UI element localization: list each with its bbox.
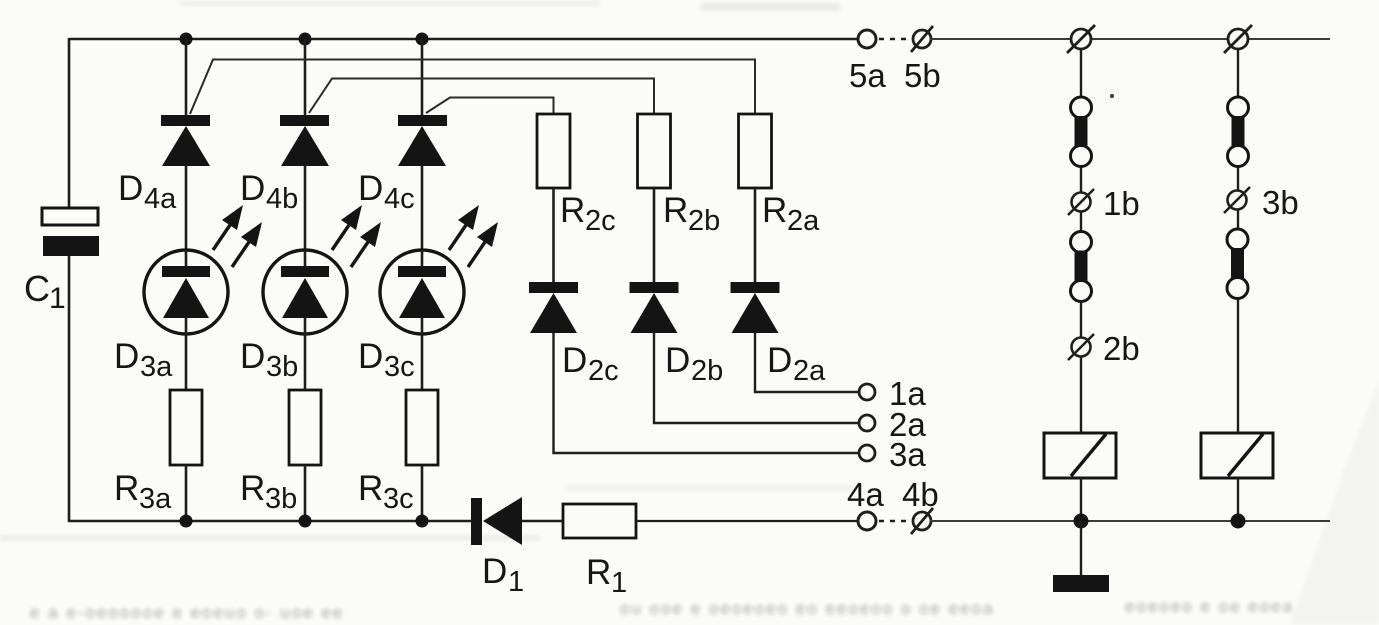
- terminal 5b (crossed): [911, 26, 933, 52]
- diode D4b: [280, 115, 329, 166]
- svg-text:D: D: [358, 337, 383, 376]
- wire: bottom bus right segment: [930, 520, 1330, 522]
- terminal 2b (crossed): [1068, 334, 1094, 360]
- resistor R2c: [537, 114, 570, 188]
- svg-text:R: R: [586, 553, 611, 592]
- LED arrows D3c: [449, 205, 498, 267]
- terminal 4b (crossed): [911, 508, 933, 534]
- wire: bottom bus R1-4a: [636, 520, 859, 522]
- ground: [1053, 575, 1109, 592]
- svg-text:4a: 4a: [847, 476, 884, 513]
- svg-text:3b: 3b: [265, 483, 297, 515]
- wire: tap D4a to R2a: [190, 60, 755, 115]
- svg-text:C: C: [24, 268, 50, 309]
- svg-text:2c: 2c: [585, 205, 616, 237]
- wire: dashed link 4a-4b: [879, 520, 911, 522]
- svg-text:3c: 3c: [383, 483, 414, 515]
- svg-text:4b: 4b: [266, 183, 298, 215]
- wire: tap D4b to R2b: [309, 79, 654, 115]
- svg-text:D: D: [358, 169, 383, 208]
- junction node bottom branch 2: [1231, 514, 1246, 529]
- svg-text:3b: 3b: [266, 351, 298, 383]
- terminal 1b (crossed): [1068, 189, 1094, 215]
- svg-text:5a: 5a: [849, 57, 886, 94]
- svg-text:D: D: [118, 169, 143, 208]
- junction node bottom branch 1: [1074, 514, 1089, 529]
- svg-text:3a: 3a: [139, 483, 172, 515]
- wire: right branch 1 (lamp 1b/2b): [1080, 39, 1082, 433]
- svg-text:R: R: [762, 191, 787, 230]
- svg-text:2a: 2a: [787, 205, 820, 237]
- terminal 3a: [859, 445, 875, 461]
- wire: branch c top: [421, 39, 424, 115]
- wire: top bus left segment: [69, 38, 859, 40]
- terminal 5a: [858, 30, 876, 48]
- svg-text:3c: 3c: [384, 351, 415, 383]
- svg-text:1: 1: [508, 566, 524, 598]
- svg-text:D: D: [240, 337, 265, 376]
- wire: relay K1 to bottom bus: [1080, 478, 1082, 521]
- terminal 2a: [859, 415, 875, 431]
- wire: branch b mid: [304, 166, 307, 251]
- junction node top branch b: [299, 33, 312, 46]
- svg-text:1: 1: [49, 282, 66, 315]
- svg-text:5b: 5b: [904, 57, 941, 94]
- resistor R3b: [289, 390, 321, 465]
- svg-text:1: 1: [611, 567, 627, 599]
- svg-text:R: R: [240, 469, 265, 508]
- connector element lower branch 2: [1227, 229, 1248, 299]
- svg-text:R: R: [560, 191, 585, 230]
- diode D2b: [630, 282, 679, 333]
- junction node bottom branch a: [180, 515, 193, 528]
- junction node bottom branch c: [416, 515, 429, 528]
- svg-text:2b: 2b: [1103, 330, 1140, 367]
- svg-text:D: D: [767, 341, 792, 380]
- svg-text:4c: 4c: [384, 183, 415, 215]
- resistor R2b: [638, 114, 671, 188]
- terminal crossed on top bus branch 1: [1067, 25, 1095, 53]
- svg-text:D: D: [665, 341, 690, 380]
- capacitor C1: [42, 208, 99, 256]
- wire: top bus right segment: [930, 38, 1330, 40]
- wire: D2c to terminal 3a: [554, 333, 860, 453]
- junction node top branch c: [416, 33, 429, 46]
- diode D1: [471, 497, 522, 545]
- wire: right branch 2 (lamp 3b): [1237, 39, 1239, 433]
- diode D4a: [161, 115, 210, 166]
- wire: R2b to D2b: [653, 188, 656, 282]
- connector element upper branch 2: [1228, 97, 1249, 167]
- svg-text:e a e-oeooooe e eoeuo o-: e a e-oeooooe e eoeuo o- uoe ee: [30, 603, 344, 622]
- wire: tap D4c to R2c: [426, 98, 554, 115]
- junction node bottom branch b: [299, 515, 312, 528]
- wire: bottom bus D1-R1: [522, 520, 563, 522]
- wire: bottom bus left segment: [68, 520, 472, 522]
- wire: R2c to D2c: [552, 188, 555, 282]
- wire: D2a to terminal 1a: [755, 333, 859, 392]
- junction node top branch a: [180, 33, 193, 46]
- wire: branch b top: [304, 39, 307, 115]
- connector element upper branch 1: [1071, 97, 1092, 167]
- svg-text:R: R: [114, 469, 139, 508]
- svg-text:2a: 2a: [793, 355, 826, 387]
- wire: branch c mid: [421, 166, 424, 251]
- resistor R1: [563, 504, 636, 538]
- wire: branch b lower: [304, 334, 307, 390]
- terminal crossed on top bus branch 2: [1224, 25, 1252, 53]
- svg-text:4a: 4a: [144, 183, 177, 215]
- wire: ground stem: [1080, 521, 1082, 575]
- LED arrows D3a: [213, 205, 262, 267]
- wire: branch a lower: [185, 334, 188, 390]
- svg-text:2b: 2b: [691, 355, 723, 387]
- wire: branch c bottom: [421, 465, 424, 521]
- resistor R3c: [406, 390, 438, 465]
- svg-text:3a: 3a: [140, 351, 173, 383]
- svg-text:D: D: [562, 341, 587, 380]
- svg-text:D: D: [482, 552, 507, 591]
- wire: branch b bottom: [304, 465, 307, 521]
- svg-text:R: R: [663, 191, 688, 230]
- LED D3b: [263, 250, 347, 334]
- wire: branch a top: [185, 39, 188, 115]
- terminal 4a: [858, 512, 876, 530]
- svg-text:R: R: [358, 469, 383, 508]
- wire: relay K2 to bottom bus: [1237, 478, 1239, 521]
- svg-text:D: D: [114, 337, 139, 376]
- svg-text:ou ooe e oeoeoeo eo eeoeo: ou ooe e oeoeoeo eo eeoeoo o oe eeoa: [620, 599, 995, 618]
- connector element lower branch 1: [1071, 232, 1092, 302]
- svg-text:D: D: [240, 169, 265, 208]
- diode D4c: [398, 115, 447, 166]
- wire: left rail upper: [68, 38, 71, 208]
- LED D3c: [380, 250, 464, 334]
- wire: branch a mid: [185, 166, 188, 251]
- svg-text:1a: 1a: [889, 375, 926, 412]
- wire: branch c lower: [421, 334, 424, 390]
- svg-text:eoeoeo e oe eoea: eoeoeo e oe eoea: [1125, 597, 1294, 616]
- svg-text:2b: 2b: [688, 205, 720, 237]
- wire: branch a bottom: [185, 465, 188, 521]
- relay coil K2: [1201, 433, 1273, 478]
- svg-text:3b: 3b: [1262, 184, 1299, 221]
- resistor R3a: [170, 390, 202, 465]
- svg-text:4b: 4b: [902, 476, 939, 513]
- relay coil K1: [1044, 433, 1116, 478]
- wire: R2a to D2a: [754, 188, 757, 282]
- LED D3a: [144, 250, 228, 334]
- svg-text:1b: 1b: [1103, 185, 1140, 222]
- terminal 3b (crossed): [1224, 187, 1250, 213]
- wire: D2b to terminal 2a: [654, 333, 859, 423]
- resistor R2a: [739, 114, 772, 188]
- wire: left rail lower: [68, 256, 71, 522]
- diode D2a: [731, 282, 780, 333]
- diode D2c: [529, 282, 578, 333]
- svg-text:2c: 2c: [588, 355, 619, 387]
- LED arrows D3b: [332, 205, 381, 267]
- wire: dashed link 5a-5b: [879, 38, 911, 40]
- terminal 1a: [859, 384, 875, 400]
